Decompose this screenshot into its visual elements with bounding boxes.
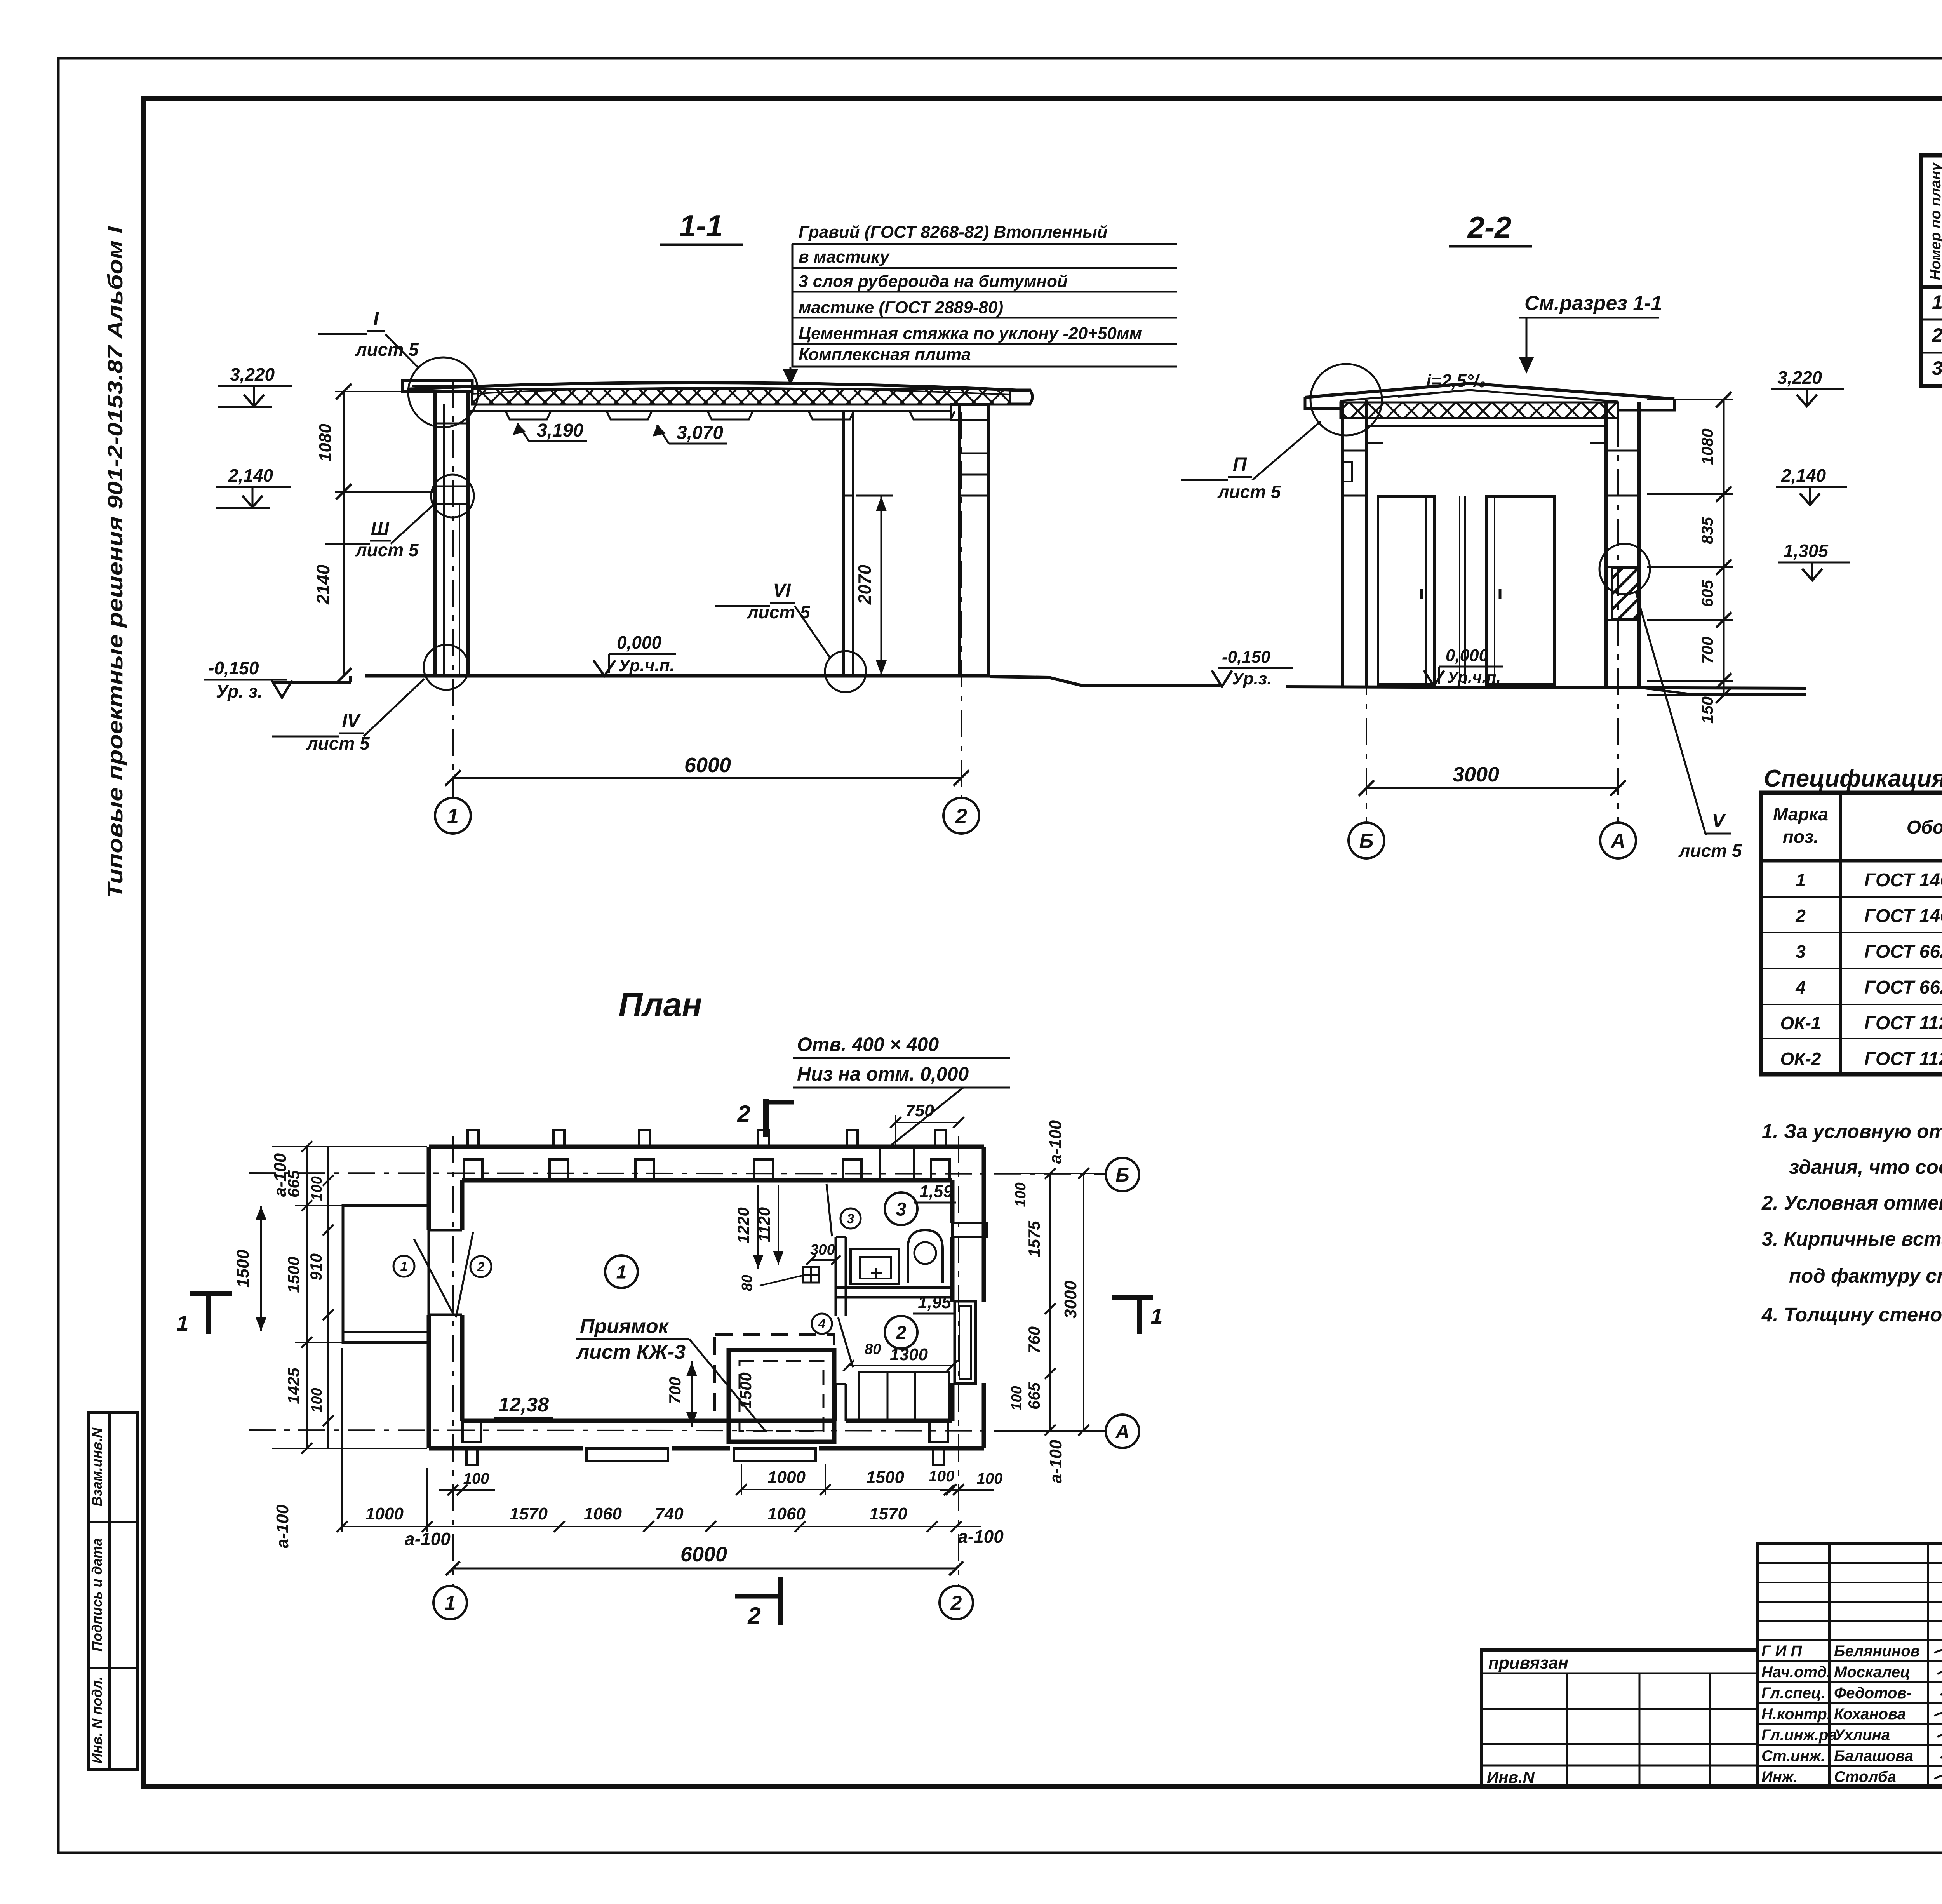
- axis line 2: [961, 412, 962, 799]
- partition P2 horizontal: [836, 1286, 952, 1289]
- entrance door leaves: [414, 1239, 454, 1315]
- svg-text:поз.: поз.: [1783, 827, 1818, 847]
- svg-text:Н.контр.: Н.контр.: [1761, 1706, 1831, 1723]
- svg-text:100: 100: [309, 1388, 325, 1412]
- svg-text:а-100: а-100: [271, 1153, 290, 1197]
- svg-text:2,140: 2,140: [1781, 465, 1826, 486]
- svg-text:2: 2: [1932, 324, 1942, 346]
- svg-text:665: 665: [1025, 1382, 1043, 1410]
- detail circle IV: [424, 645, 469, 690]
- left dim chains: [306, 1147, 308, 1448]
- svg-text:Взам.инв.N: Взам.инв.N: [89, 1427, 105, 1507]
- door mark 2: [470, 1256, 491, 1277]
- room number 3: [885, 1192, 917, 1225]
- svg-text:1080: 1080: [1698, 428, 1716, 465]
- svg-text:Коханова: Коханова: [1834, 1706, 1906, 1723]
- section cut mark 2 bottom: [778, 1577, 783, 1625]
- roof slab 2-2: [1305, 383, 1674, 399]
- svg-text:6000: 6000: [680, 1543, 727, 1566]
- svg-text:Ст.инж.: Ст.инж.: [1761, 1747, 1825, 1765]
- svg-text:Низ на отм. 0,000: Низ на отм. 0,000: [797, 1063, 969, 1085]
- svg-text:4: 4: [818, 1317, 826, 1331]
- svg-text:2. Условная отметка уровня: 2. Условная отметка уровня земли принята…: [1761, 1192, 1942, 1214]
- svg-text:а-100: а-100: [1046, 1439, 1065, 1483]
- svg-text:Г И П: Г И П: [1761, 1643, 1803, 1660]
- svg-text:1: 1: [445, 1592, 456, 1615]
- door mark 4: [812, 1314, 832, 1334]
- top wall posts: [468, 1130, 479, 1147]
- svg-text:100: 100: [1009, 1386, 1025, 1410]
- svg-text:Столба: Столба: [1834, 1768, 1896, 1786]
- svg-text:1,95: 1,95: [918, 1293, 951, 1312]
- plan axis bubble Б: [1106, 1158, 1139, 1191]
- svg-text:Приямок: Приямок: [580, 1315, 670, 1338]
- svg-text:700: 700: [1698, 637, 1716, 664]
- svg-text:а-100: а-100: [273, 1504, 292, 1548]
- svg-text:Белянинов: Белянинов: [1834, 1643, 1920, 1660]
- svg-text:под фактуру стеновых панеле: под фактуру стеновых панелей.: [1789, 1265, 1942, 1287]
- staff signature table: [1758, 1544, 1942, 1787]
- svg-text:Ухлина: Ухлина: [1834, 1726, 1890, 1744]
- top wall: [429, 1145, 984, 1149]
- vertical dims 1080 / 2140 left: [343, 392, 345, 676]
- svg-text:100: 100: [977, 1470, 1003, 1487]
- svg-text:0,000: 0,000: [617, 632, 662, 653]
- interior door 2 (2-2): [1486, 496, 1554, 684]
- svg-text:1060: 1060: [767, 1504, 806, 1523]
- axis bubble А: [1600, 823, 1636, 858]
- door mark 1: [393, 1256, 414, 1277]
- svg-text:ГОСТ 14624 -84: ГОСТ 14624 -84: [1864, 870, 1942, 891]
- svg-text:4: 4: [1795, 977, 1806, 997]
- svg-text:12,38: 12,38: [498, 1394, 549, 1416]
- svg-text:А: А: [1610, 830, 1625, 853]
- svg-text:П: П: [1233, 453, 1247, 475]
- svg-text:-0,150: -0,150: [1222, 647, 1270, 667]
- axis bubble Б: [1349, 823, 1384, 858]
- svg-text:См.разрез 1-1: См.разрез 1-1: [1524, 292, 1662, 315]
- svg-text:а-100: а-100: [958, 1526, 1004, 1547]
- svg-text:Спецификация элементов запол: Спецификация элементов заполнения проемо…: [1764, 765, 1942, 792]
- svg-text:760: 760: [1025, 1326, 1043, 1354]
- svg-text:Типовые проектные решени: Типовые проектные решения 901-2-0153.87 …: [104, 226, 127, 898]
- room number 2: [885, 1316, 917, 1349]
- right eave cap: [1010, 390, 1032, 404]
- svg-text:Ур.ч.п.: Ур.ч.п.: [1447, 668, 1501, 686]
- svg-text:ОК-2: ОК-2: [1780, 1049, 1821, 1069]
- entrance porch: [343, 1206, 429, 1342]
- window sills bottom: [586, 1448, 668, 1461]
- left parapet cap: [402, 381, 472, 392]
- svg-text:Гл.спец.: Гл.спец.: [1761, 1685, 1825, 1702]
- svg-text:1500: 1500: [866, 1468, 904, 1487]
- svg-text:Б: Б: [1115, 1164, 1129, 1186]
- right wall vent: [952, 1223, 987, 1237]
- svg-text:Балашова: Балашова: [1834, 1747, 1913, 1765]
- ceiling line 2-2: [1366, 425, 1606, 427]
- dim 6000 total: [453, 1568, 956, 1570]
- svg-text:лист 5: лист 5: [355, 339, 419, 360]
- floor/ground 2-2: [1286, 687, 1806, 688]
- door 3 leaf: [827, 1184, 832, 1236]
- axis bubble 2: [943, 798, 979, 834]
- svg-text:ГОСТ 14624 -84: ГОСТ 14624 -84: [1864, 906, 1942, 926]
- ground line left: [272, 681, 351, 684]
- plan axis bubble А: [1106, 1415, 1139, 1448]
- door mark 3: [840, 1208, 861, 1229]
- svg-text:Ур.ч.п.: Ур.ч.п.: [618, 656, 675, 675]
- svg-text:2: 2: [955, 804, 967, 828]
- svg-text:1. За условную отметку 0,000: 1. За условную отметку 0,000 принят уров…: [1762, 1120, 1942, 1142]
- svg-text:1-1: 1-1: [679, 209, 723, 243]
- partition edge between doors: [1459, 496, 1460, 684]
- svg-text:3. Кирпичные вставки с нару: 3. Кирпичные вставки с наружной стороны …: [1762, 1228, 1942, 1250]
- axis bubble 1: [435, 798, 471, 834]
- svg-text:2: 2: [1795, 906, 1806, 926]
- detail circle V: [1599, 544, 1650, 594]
- svg-text:150: 150: [1698, 696, 1716, 724]
- left wall 2-2: [1341, 400, 1344, 686]
- pit inner dashed: [740, 1361, 823, 1431]
- right eave 2-2: [1618, 399, 1674, 410]
- svg-text:1: 1: [1796, 870, 1806, 890]
- svg-text:1500: 1500: [736, 1372, 755, 1408]
- svg-text:Нач.отд.: Нач.отд.: [1761, 1664, 1831, 1681]
- plan axis bubble 2: [940, 1586, 973, 1619]
- right wall 2-2: [1604, 402, 1608, 686]
- svg-text:Б: Б: [1359, 830, 1374, 853]
- right wall exterior door leaf: [955, 1301, 976, 1384]
- svg-text:605: 605: [1698, 580, 1716, 607]
- brick insert hatched: [1612, 568, 1639, 619]
- svg-text:V: V: [1712, 810, 1726, 832]
- svg-text:2,140: 2,140: [228, 465, 273, 486]
- svg-text:1575: 1575: [1025, 1221, 1043, 1257]
- svg-text:а-100: а-100: [1046, 1120, 1065, 1164]
- svg-text:80: 80: [865, 1341, 881, 1358]
- svg-text:740: 740: [655, 1504, 684, 1523]
- svg-text:2: 2: [737, 1101, 750, 1127]
- svg-text:Инв. N подл.: Инв. N подл.: [89, 1676, 105, 1763]
- svg-text:1300: 1300: [890, 1345, 928, 1364]
- plan axis lines: [452, 1136, 454, 1585]
- room number 1: [605, 1255, 638, 1288]
- right wall section 1-1: [958, 404, 961, 677]
- svg-text:3,220: 3,220: [230, 364, 275, 385]
- svg-text:План: План: [618, 986, 702, 1023]
- svg-text:I: I: [373, 308, 379, 330]
- svg-text:1000: 1000: [767, 1468, 806, 1487]
- svg-text:1: 1: [176, 1311, 188, 1335]
- svg-text:2: 2: [477, 1260, 485, 1274]
- svg-text:1: 1: [616, 1262, 627, 1283]
- svg-text:3 слоя рубероида на битумной: 3 слоя рубероида на битумной: [799, 272, 1068, 291]
- svg-text:Обозначение: Обозначение: [1907, 817, 1942, 838]
- svg-text:а-100: а-100: [405, 1529, 451, 1549]
- dim row pit/window: [741, 1489, 959, 1490]
- svg-text:80: 80: [739, 1275, 755, 1291]
- roof slab 1-1: [407, 383, 1029, 391]
- svg-text:3: 3: [1932, 357, 1942, 379]
- svg-text:4. Толщину стеновых блоков „: 4. Толщину стеновых блоков „а" смотри на…: [1761, 1304, 1942, 1326]
- svg-text:лист КЖ-3: лист КЖ-3: [576, 1341, 686, 1363]
- svg-text:Федотов-: Федотов-: [1834, 1685, 1912, 1702]
- svg-text:Номер по плану: Номер по плану: [1928, 162, 1942, 280]
- svg-text:3: 3: [1796, 942, 1806, 962]
- window niche room 2: [859, 1372, 949, 1421]
- washbasin: [851, 1249, 899, 1284]
- svg-text:ГОСТ 11214 - 78: ГОСТ 11214 - 78: [1864, 1013, 1942, 1034]
- svg-text:1: 1: [400, 1259, 408, 1274]
- svg-text:100: 100: [929, 1468, 955, 1485]
- svg-text:Гл.инж.ра: Гл.инж.ра: [1761, 1726, 1837, 1744]
- door 4 leaf: [838, 1317, 853, 1367]
- svg-text:3: 3: [896, 1199, 907, 1220]
- svg-text:Ур. з.: Ур. з.: [216, 681, 263, 701]
- svg-text:Марка: Марка: [1773, 804, 1828, 824]
- svg-text:3000: 3000: [1453, 763, 1499, 786]
- svg-text:3,190: 3,190: [537, 420, 583, 441]
- vent hole 400x400 in top wall: [879, 1147, 881, 1180]
- svg-text:1080: 1080: [316, 424, 335, 462]
- svg-text:-0,150: -0,150: [208, 658, 259, 678]
- dim 700 pit: [691, 1361, 693, 1427]
- section cut mark 1 left: [190, 1291, 232, 1296]
- svg-text:2070: 2070: [854, 564, 875, 605]
- svg-text:лист 5: лист 5: [1217, 482, 1281, 502]
- svg-text:2140: 2140: [313, 564, 333, 605]
- ground line right: [990, 677, 1220, 686]
- svg-text:1220: 1220: [734, 1207, 752, 1243]
- svg-text:ГОСТ 6629 - 74*: ГОСТ 6629 - 74*: [1864, 977, 1942, 998]
- svg-text:1,59: 1,59: [919, 1182, 953, 1201]
- svg-text:1: 1: [447, 804, 459, 828]
- svg-text:1500: 1500: [284, 1257, 303, 1293]
- svg-text:1,305: 1,305: [1784, 541, 1829, 561]
- svg-text:2-2: 2-2: [1467, 210, 1512, 244]
- left margin bottom table: [88, 1412, 138, 1769]
- svg-text:мастике (ГОСТ 2889-80): мастике (ГОСТ 2889-80): [799, 298, 1003, 317]
- toilet: [908, 1230, 943, 1283]
- detail circle I: [408, 357, 478, 427]
- svg-text:Инв.N: Инв.N: [1487, 1768, 1535, 1786]
- svg-text:ГОСТ 6629 - 74*: ГОСТ 6629 - 74*: [1864, 942, 1942, 962]
- bottom wall with window openings: [429, 1446, 583, 1451]
- svg-text:Инж.: Инж.: [1761, 1768, 1798, 1786]
- svg-text:Москалец: Москалец: [1834, 1664, 1910, 1681]
- ceiling line: [468, 410, 952, 412]
- axis line А: [1617, 419, 1619, 823]
- dim 2070 interior: [881, 496, 882, 675]
- left eave 2-2: [1305, 397, 1340, 409]
- detail circle II: [1310, 364, 1382, 435]
- dim row openings: [342, 1526, 981, 1527]
- svg-text:3,220: 3,220: [1777, 367, 1822, 388]
- floor drain: [803, 1267, 819, 1283]
- right wall with openings: [982, 1147, 986, 1302]
- left wall with door opening: [427, 1147, 431, 1230]
- svg-text:3: 3: [847, 1211, 854, 1226]
- svg-text:2: 2: [896, 1323, 907, 1343]
- section cut mark 1 right: [1112, 1295, 1153, 1300]
- plan axis bubble 1: [433, 1586, 467, 1619]
- svg-text:3,070: 3,070: [677, 423, 723, 443]
- svg-text:1570: 1570: [510, 1504, 548, 1523]
- svg-text:1500: 1500: [233, 1250, 252, 1288]
- slab ribs: [506, 411, 551, 419]
- svg-text:VI: VI: [773, 580, 791, 601]
- svg-text:6000: 6000: [684, 754, 731, 777]
- svg-text:здания, что соответствует: здания, что соответствует абсолютной отм…: [1789, 1156, 1942, 1178]
- left wall section 1-1: [433, 392, 437, 676]
- svg-text:835: 835: [1698, 517, 1716, 544]
- svg-text:Подпись и дата: Подпись и дата: [89, 1538, 105, 1652]
- svg-text:Комплексная плита: Комплексная плита: [799, 345, 971, 364]
- svg-text:1570: 1570: [869, 1504, 907, 1523]
- middle partition section 1-1: [842, 411, 845, 676]
- dim 3000 section 2-2: [1366, 787, 1618, 789]
- detail circle III: [431, 475, 474, 517]
- svg-text:А: А: [1115, 1421, 1129, 1443]
- svg-text:0,000: 0,000: [1446, 646, 1489, 665]
- svg-text:1425: 1425: [284, 1368, 303, 1404]
- right dim chains: [1049, 1173, 1051, 1430]
- svg-text:700: 700: [666, 1377, 684, 1404]
- axis line 1: [452, 381, 454, 799]
- svg-text:ОК-1: ОК-1: [1780, 1013, 1821, 1033]
- svg-text:910: 910: [307, 1253, 325, 1281]
- floor line 1-1: [365, 674, 990, 678]
- svg-text:Отв. 400 × 400: Отв. 400 × 400: [797, 1034, 939, 1055]
- section cut mark 2 top: [763, 1099, 769, 1137]
- svg-text:2: 2: [950, 1592, 962, 1615]
- svg-text:1060: 1060: [584, 1504, 622, 1523]
- svg-text:в мастику: в мастику: [799, 247, 890, 266]
- svg-text:Ш: Ш: [371, 519, 390, 540]
- pit (приямок) dashed outer: [715, 1335, 834, 1421]
- svg-text:1: 1: [1932, 291, 1942, 313]
- left привязан block: [1481, 1650, 1758, 1787]
- axis line Б: [1366, 419, 1367, 823]
- svg-text:3000: 3000: [1061, 1281, 1080, 1319]
- partition P1 vertical: [835, 1237, 837, 1316]
- svg-text:Цементная стяжка по уклону -20: Цементная стяжка по уклону -20+50мм: [799, 324, 1142, 343]
- svg-text:ГОСТ 11214 - 78: ГОСТ 11214 - 78: [1864, 1049, 1942, 1069]
- svg-text:привязан: привязан: [1488, 1653, 1568, 1673]
- svg-text:1000: 1000: [365, 1504, 404, 1523]
- svg-text:100: 100: [309, 1176, 325, 1201]
- svg-text:2: 2: [747, 1603, 760, 1629]
- dim 6000 section 1-1: [453, 777, 961, 779]
- svg-text:1: 1: [1150, 1304, 1162, 1328]
- svg-text:IV: IV: [342, 711, 361, 731]
- vertical dim chain right of 2-2: [1723, 400, 1725, 695]
- bottom wall posts: [466, 1448, 477, 1465]
- interior door 1 (2-2): [1378, 496, 1434, 684]
- svg-text:750: 750: [905, 1101, 934, 1120]
- svg-text:Гравий (ГОСТ 8268-82) Втопленн: Гравий (ГОСТ 8268-82) Втопленный: [799, 223, 1108, 242]
- svg-text:Ур.з.: Ур.з.: [1232, 669, 1272, 688]
- pit solid wall: [729, 1350, 834, 1442]
- svg-text:лист 5: лист 5: [1678, 841, 1742, 861]
- svg-text:100: 100: [1013, 1182, 1029, 1207]
- detail circle VI: [825, 651, 866, 692]
